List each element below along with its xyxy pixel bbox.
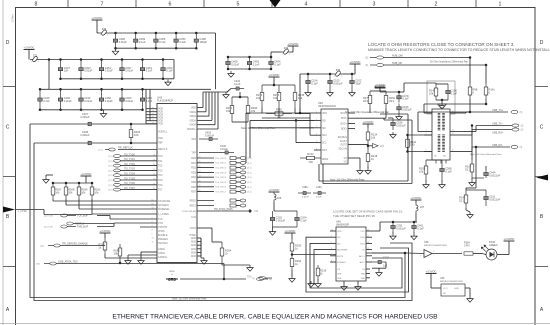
sheet connector arrow right bbox=[536, 175, 548, 181]
svg-text:TD6: TD6 bbox=[158, 184, 163, 187]
power +3.3VDC bbox=[375, 83, 386, 87]
wire RD6 bbox=[197, 186, 214, 188]
wire GND6 stub bbox=[197, 255, 201, 257]
svg-text:10k: 10k bbox=[226, 109, 231, 113]
resistor R404 100 bbox=[129, 124, 141, 143]
power +3.3VDC bbox=[269, 73, 280, 77]
svg-text:TCK: TCK bbox=[158, 218, 163, 221]
svg-text:(2.2): (2.2) bbox=[108, 175, 113, 177]
svg-text:TLK2108IRCP: TLK2108IRCP bbox=[157, 100, 173, 103]
junction midrail 3 bbox=[270, 56, 273, 59]
U46 right pin ACC- bbox=[366, 261, 372, 263]
U46 left pin VDD bbox=[330, 230, 336, 232]
svg-text:MODESEL: MODESEL bbox=[158, 208, 170, 211]
off-page connector bbox=[114, 164, 121, 167]
T2 bottom NC stubs bbox=[436, 160, 446, 164]
off-page connector bbox=[114, 183, 121, 186]
svg-text:VDD: VDD bbox=[191, 107, 196, 110]
svg-text:0.01uF: 0.01uF bbox=[84, 69, 92, 73]
svg-text:10k: 10k bbox=[251, 109, 256, 113]
resistor R268 10k bbox=[64, 183, 75, 199]
T2 left pin 2 bbox=[424, 134, 432, 136]
wire VO out bbox=[348, 157, 360, 159]
top zone tick 7 bbox=[475, 0, 477, 8]
svg-text:VDDA: VDDA bbox=[189, 115, 196, 118]
wire rail A bottom bbox=[116, 47, 197, 49]
junction rail A bottom 3 bbox=[155, 47, 158, 50]
junction R191 bottom bbox=[406, 150, 409, 153]
capacitor C447 1uF bbox=[58, 60, 70, 79]
svg-text:0.1uF: 0.1uF bbox=[234, 83, 241, 86]
svg-text:0.01uF: 0.01uF bbox=[64, 99, 72, 103]
junction rail B bottom 3 bbox=[100, 78, 103, 81]
svg-text:(2.2): (2.2) bbox=[108, 161, 113, 163]
svg-text:10k: 10k bbox=[68, 190, 73, 194]
wire jtrstn stub bbox=[140, 226, 157, 228]
svg-text:21: 21 bbox=[153, 169, 155, 171]
svg-text:VDDA: VDDA bbox=[189, 119, 196, 122]
svg-text:ENABLE: ENABLE bbox=[158, 234, 168, 237]
svg-text:THWn: THWn bbox=[189, 234, 196, 237]
wire bus drop b bbox=[245, 113, 247, 163]
svg-text:8: 8 bbox=[152, 230, 153, 232]
svg-text:VO: VO bbox=[344, 162, 348, 164]
wire VDDA stub right bbox=[197, 115, 209, 117]
U40 right pin BOO- bbox=[348, 117, 355, 119]
svg-text:VDDA: VDDA bbox=[189, 124, 196, 127]
svg-text:0.1uF: 0.1uF bbox=[402, 97, 409, 101]
svg-text:10k: 10k bbox=[273, 96, 278, 100]
resistor series RD5 bbox=[230, 181, 236, 184]
wire R331-R330 top bbox=[232, 96, 248, 98]
svg-text:HUB_DP: HUB_DP bbox=[392, 62, 402, 65]
wire R213 down bbox=[261, 108, 263, 114]
svg-text:7: 7 bbox=[101, 1, 104, 7]
capacitor C106 0.001uF bbox=[397, 104, 412, 114]
resistor R250 1k bbox=[290, 239, 302, 255]
wire boo pair riser b bbox=[411, 120, 413, 184]
svg-text:TD1: TD1 bbox=[158, 160, 163, 163]
resistor R215 10k bbox=[293, 85, 305, 108]
ground C186 bbox=[390, 132, 396, 138]
svg-text:5: 5 bbox=[316, 141, 317, 143]
wire c107 down bbox=[385, 262, 387, 268]
svg-text:FAULT: FAULT bbox=[340, 140, 348, 143]
svg-text:6: 6 bbox=[169, 1, 172, 7]
svg-text:8: 8 bbox=[35, 1, 38, 7]
off-page connector LINE_XPGA_TDO bbox=[44, 262, 56, 265]
svg-text:0.001uF: 0.001uF bbox=[396, 226, 406, 230]
wire test2 bbox=[73, 223, 114, 225]
wire mode bus 1 bbox=[53, 200, 157, 202]
svg-text:TEN: TEN bbox=[191, 138, 196, 141]
junction midrail 2 bbox=[248, 56, 251, 59]
off-page connector RD4 bbox=[240, 176, 246, 179]
svg-text:+3.3VDC: +3.3VDC bbox=[269, 188, 280, 192]
resistor R552 100 bbox=[266, 107, 292, 119]
svg-text:U48: U48 bbox=[424, 241, 429, 244]
wire vcc pin wire bbox=[372, 230, 380, 232]
svg-text:(3.1): (3.1) bbox=[247, 172, 252, 174]
sheet frame top border bbox=[15, 7, 535, 9]
svg-text:(3.1): (3.1) bbox=[247, 163, 252, 165]
resistor R214 10k bbox=[366, 128, 378, 144]
svg-text:TD3: TD3 bbox=[158, 169, 163, 172]
resistor series RD7 bbox=[230, 190, 236, 193]
capacitor C204 0.1uF bbox=[295, 211, 307, 227]
wire RD0 bbox=[197, 157, 214, 159]
svg-text:0.001uF: 0.001uF bbox=[80, 134, 90, 137]
wire rx- jog bbox=[466, 151, 472, 153]
right zone tick bbox=[535, 86, 548, 88]
capacitor C479 0.1uF bbox=[397, 92, 409, 103]
junction rail B bottom 6 bbox=[162, 78, 165, 81]
off-page connector RD3 bbox=[240, 171, 246, 174]
svg-text:SPICEEN: SPICEEN bbox=[158, 204, 169, 207]
wire mid pair b bbox=[323, 183, 412, 185]
svg-text:2 Rev: 2 Rev bbox=[11, 14, 15, 22]
U40 right pin BOO+ bbox=[348, 122, 355, 124]
junction rail A 5 bbox=[195, 32, 198, 35]
wire j0 riser down bbox=[299, 74, 301, 113]
junction rail A 4 bbox=[175, 32, 178, 35]
junction R404 bottom bbox=[130, 142, 133, 145]
svg-text:(2.2): (2.2) bbox=[108, 180, 113, 182]
svg-text:BOO-: BOO- bbox=[341, 129, 347, 131]
wire top mid rail bbox=[228, 56, 271, 58]
wire tdo cont bbox=[120, 263, 224, 265]
wire n rail bbox=[274, 210, 297, 212]
svg-text:SDO: SDO bbox=[360, 243, 365, 245]
svg-text:0.001uF: 0.001uF bbox=[396, 123, 406, 127]
ground C479/C106 bbox=[396, 114, 402, 120]
svg-text:47: 47 bbox=[199, 156, 201, 158]
wire GND4 riser bbox=[200, 238, 202, 249]
wire u49 gnd drop bbox=[469, 288, 471, 296]
wire mode bus 2 bbox=[66, 204, 157, 206]
top zone tick 1 bbox=[67, 0, 69, 8]
capacitor C107 bbox=[372, 260, 386, 263]
wire USB_DP riser bbox=[485, 65, 487, 83]
LED DS16 bbox=[481, 245, 497, 260]
svg-text:SCL: SCL bbox=[322, 143, 327, 145]
wire USB_DM riser bbox=[469, 58, 471, 84]
svg-text:(3.1): (3.1) bbox=[247, 187, 252, 189]
svg-text:3: 3 bbox=[373, 1, 376, 7]
wire bottom tdo b bbox=[224, 278, 246, 280]
capacitor C202 0.001uF bbox=[270, 211, 285, 227]
junction bank2 bottom 4 bbox=[100, 109, 103, 112]
resistor series RD0 bbox=[230, 157, 236, 160]
U40 left pin SDI bbox=[314, 127, 321, 129]
svg-text:GNDPLL: GNDPLL bbox=[158, 256, 168, 259]
svg-text:0.1uF: 0.1uF bbox=[316, 197, 322, 199]
ferrite bead Z33 bbox=[281, 46, 291, 56]
capacitor C465 0.1uF bbox=[154, 33, 166, 48]
svg-text:(2.2): (2.2) bbox=[108, 185, 113, 187]
svg-text:TRI_SERDES_ENABLE: TRI_SERDES_ENABLE bbox=[62, 243, 88, 246]
wire L_OPEN c bbox=[44, 214, 92, 216]
wire term2 feed bbox=[471, 126, 473, 161]
resistor R262 1k bbox=[99, 238, 107, 254]
svg-text:+3.3VDC: +3.3VDC bbox=[269, 73, 280, 77]
wire term top bbox=[426, 159, 442, 161]
svg-text:TESTEN: TESTEN bbox=[158, 242, 168, 245]
svg-text:9: 9 bbox=[152, 234, 153, 236]
ground mode a bbox=[125, 258, 131, 264]
svg-text:REF: REF bbox=[158, 142, 163, 145]
svg-text:0.1uF: 0.1uF bbox=[159, 40, 166, 44]
ground C234 bbox=[223, 92, 229, 98]
ground U49 bbox=[467, 296, 473, 302]
svg-text:(3): (3) bbox=[521, 126, 524, 128]
svg-text:5: 5 bbox=[237, 1, 240, 7]
resistor R98 0 bbox=[468, 83, 478, 99]
svg-text:0.1uF: 0.1uF bbox=[146, 99, 153, 103]
junction bus a bbox=[299, 112, 302, 115]
wire R216 down bbox=[278, 108, 280, 118]
wire u46 gnd a lead bbox=[343, 281, 345, 284]
off-page connector USB_DP bbox=[370, 63, 383, 66]
svg-text:(3): (3) bbox=[365, 65, 368, 67]
sheet outer edge line left bbox=[2, 0, 4, 325]
junction box gnd bbox=[441, 99, 444, 102]
svg-text:JTRSTN: JTRSTN bbox=[158, 226, 167, 229]
svg-text:0.01uF: 0.01uF bbox=[125, 69, 133, 73]
wire u40 riser b bbox=[309, 114, 311, 136]
svg-text:46: 46 bbox=[199, 161, 201, 163]
U46 right pin CC bbox=[366, 249, 372, 251]
wire tdo drop bbox=[223, 264, 225, 280]
wire tck jog bbox=[109, 216, 111, 220]
junction rail B bottom 1 bbox=[59, 78, 62, 81]
wire serdes enable bbox=[60, 245, 105, 247]
svg-text:TCK_BUF: TCK_BUF bbox=[77, 215, 88, 218]
sheet frame right border bbox=[534, 7, 536, 325]
svg-text:TD2_RXC2: TD2_RXC2 bbox=[215, 168, 227, 170]
capacitor C439 4.7uF bbox=[38, 89, 50, 110]
junction rail B 3 bbox=[100, 58, 103, 61]
wire rail B right end bbox=[173, 60, 175, 79]
svg-text:RD4: RD4 bbox=[191, 176, 196, 179]
svg-text:PRESEN: PRESEN bbox=[158, 238, 168, 241]
svg-text:6: 6 bbox=[316, 148, 317, 150]
svg-text:(2.2): (2.2) bbox=[108, 170, 113, 172]
top zone tick 2 bbox=[135, 0, 137, 8]
svg-text:SN74LVC1G04YDCKR: SN74LVC1G04YDCKR bbox=[440, 281, 463, 283]
wire rx+ jog bbox=[466, 134, 472, 136]
off-page connector USB_RX+ bbox=[512, 128, 519, 131]
wire T2 in top bbox=[423, 104, 425, 113]
wire loop net 2 bbox=[34, 143, 412, 301]
wire led in bbox=[482, 254, 486, 255]
junction bank2 6 bbox=[141, 88, 144, 91]
svg-text:(34): (34) bbox=[40, 246, 44, 248]
wire rx- jog v bbox=[471, 147, 473, 152]
transformer T2 shield ground arrow bbox=[438, 100, 447, 109]
wire VDD feed 4 bbox=[146, 117, 157, 119]
junction bus b bbox=[295, 119, 298, 122]
svg-text:0.01uF: 0.01uF bbox=[119, 40, 127, 44]
wire c444 top bbox=[485, 166, 487, 170]
svg-text:GREEN: GREEN bbox=[489, 244, 498, 247]
wire rail A drop to VDD rail bbox=[215, 33, 217, 89]
wire bottom tdo a bbox=[180, 278, 224, 280]
U40 left pin VDD bbox=[314, 112, 321, 114]
sheet fold arrow top bbox=[270, 0, 281, 8]
wire boo b jog bbox=[383, 118, 385, 120]
junction rail B bottom 5 bbox=[141, 78, 144, 81]
capacitor C450 0.01uF bbox=[99, 89, 113, 110]
junction rail B 5 bbox=[141, 58, 144, 61]
ground U43 right bbox=[201, 258, 207, 264]
svg-text:CS: CS bbox=[337, 269, 341, 271]
svg-text:RD2: RD2 bbox=[191, 167, 196, 170]
junction midrail bottom 1 bbox=[227, 68, 230, 71]
resistor series RD4 bbox=[230, 176, 236, 179]
wire z35 in bbox=[343, 73, 355, 75]
power +3.3VDC bbox=[426, 269, 437, 273]
wire GND3 riser bbox=[200, 238, 202, 245]
wire JTDO to R264 bbox=[212, 241, 222, 243]
svg-text:(2.2): (2.2) bbox=[108, 190, 113, 192]
svg-text:0.001uF: 0.001uF bbox=[80, 116, 90, 119]
svg-text:TD6_RXC6: TD6_RXC6 bbox=[215, 187, 227, 189]
svg-text:0.001uF: 0.001uF bbox=[333, 81, 343, 85]
ground C104 bbox=[305, 90, 311, 96]
capacitor C398 0.1uF bbox=[440, 160, 452, 180]
wire 3.3 lead bbox=[273, 77, 275, 85]
wire buffer out bbox=[432, 253, 462, 255]
T2 left pin 3 bbox=[424, 131, 432, 133]
junction R191 top bbox=[406, 134, 409, 137]
svg-text:(2.2): (2.2) bbox=[108, 166, 113, 168]
svg-text:0.1uF: 0.1uF bbox=[146, 69, 153, 73]
resistor R141 0 bbox=[484, 83, 495, 99]
wire c401 gnd lead bbox=[413, 232, 415, 234]
wire 3.3 lead tr bbox=[379, 87, 381, 92]
wire c186 top bbox=[388, 117, 393, 119]
svg-text:(4,27,33): (4,27,33) bbox=[44, 227, 53, 229]
wire CC out bbox=[372, 252, 407, 254]
wire USB_DM to T2 bbox=[418, 111, 470, 113]
svg-text:C: C bbox=[540, 125, 544, 131]
wire GND1 stub bbox=[197, 237, 201, 239]
off-page connector RD5 bbox=[240, 181, 246, 184]
svg-text:C42: C42 bbox=[254, 211, 259, 213]
wire u40 b bbox=[296, 119, 300, 121]
ground rail B bbox=[165, 80, 171, 86]
svg-text:TD5_RXC5: TD5_RXC5 bbox=[215, 182, 227, 184]
capacitor C401 0.1uF bbox=[412, 222, 424, 232]
svg-text:GND: GND bbox=[191, 242, 196, 244]
wire r377 rail bbox=[370, 90, 386, 92]
ferrite bead Z27 vertical bbox=[416, 203, 425, 213]
top zone tick 6 bbox=[407, 0, 409, 8]
svg-text:EX1: EX1 bbox=[380, 146, 385, 148]
T2 left pin 5 bbox=[424, 151, 432, 153]
junction L 2 bbox=[65, 182, 68, 185]
svg-text:10: 10 bbox=[367, 242, 369, 244]
svg-text:RD1: RD1 bbox=[191, 162, 196, 165]
wire VDDA top rail bbox=[203, 91, 228, 93]
wire z33 right bbox=[291, 51, 293, 53]
wire mid pair a drop bbox=[318, 164, 320, 181]
wire RD3 bbox=[197, 171, 214, 173]
wire r250 to U46 bbox=[292, 254, 336, 256]
wire VDDA stub right bbox=[197, 111, 206, 113]
wire r262 down bbox=[104, 254, 106, 258]
junction rail B 4 bbox=[121, 58, 124, 61]
svg-text:RD5: RD5 bbox=[191, 181, 196, 184]
wire 3.3 j0 lead bbox=[354, 64, 356, 74]
capacitor C103 0.001uF bbox=[328, 74, 343, 90]
junction r263 bbox=[119, 262, 122, 265]
wire c202 gnd lead bbox=[272, 227, 274, 229]
wire mid rail bottom bbox=[228, 68, 271, 70]
off-page connector bbox=[114, 155, 121, 158]
svg-text:Note: 100 Ohm Differential Pai: Note: 100 Ohm Differential Pairs bbox=[172, 298, 207, 301]
svg-text:(3.1): (3.1) bbox=[247, 158, 252, 160]
buffer U48 triangle bbox=[424, 250, 432, 258]
arrow EX1 bbox=[373, 144, 379, 149]
sheet bottom faint edge bbox=[0, 323, 550, 325]
svg-text:BOO+: BOO+ bbox=[341, 123, 348, 125]
svg-text:D: D bbox=[540, 40, 544, 46]
junction bank2 bottom 5 bbox=[121, 109, 124, 112]
svg-text:ACC-: ACC- bbox=[360, 261, 366, 264]
wire +3.6V rail A bbox=[109, 32, 216, 34]
wire VDD feed 6 bbox=[146, 123, 157, 125]
IC U43 TLK2208RCP body bbox=[157, 104, 197, 263]
wire r141 bottom bbox=[485, 99, 487, 104]
svg-text:GND: GND bbox=[191, 252, 196, 254]
transformer T2 winding pair 2 bbox=[439, 135, 444, 153]
svg-text:53.2: 53.2 bbox=[459, 198, 465, 202]
svg-text:0.01uF: 0.01uF bbox=[105, 99, 113, 103]
wire VDD feed 1 bbox=[146, 108, 157, 110]
U40 left pin SDI bbox=[314, 119, 321, 121]
svg-text:0.01uF: 0.01uF bbox=[231, 62, 239, 66]
wire RD1 bbox=[197, 162, 214, 164]
wire sync bbox=[197, 210, 248, 212]
ground C391 bbox=[390, 234, 396, 240]
power +3.6VDC bbox=[288, 42, 299, 46]
wire RBC0 bbox=[197, 200, 214, 202]
svg-text:0.1uF: 0.1uF bbox=[451, 91, 458, 95]
transformer T2 body bbox=[432, 109, 450, 160]
right zone tick bbox=[535, 266, 548, 268]
power +3.3VDC bbox=[100, 229, 111, 233]
junction DP riser bbox=[485, 64, 488, 67]
wire USB_TX+ bbox=[466, 111, 508, 113]
ground R219 bbox=[315, 281, 321, 287]
svg-text:(4,27,33): (4,27,33) bbox=[44, 216, 53, 218]
svg-text:+3.3VDC: +3.3VDC bbox=[363, 120, 374, 124]
wire vcc rail u46 bbox=[380, 221, 417, 223]
svg-text:SDA: SDA bbox=[322, 134, 327, 137]
off-page connector RD2 bbox=[240, 166, 246, 169]
wire RD5 bbox=[197, 181, 214, 183]
svg-text:TD1_RXC1: TD1_RXC1 bbox=[215, 163, 227, 165]
svg-text:LMH0341SP: LMH0341SP bbox=[336, 225, 349, 227]
ground R142/C108 bbox=[439, 103, 445, 109]
svg-text:BOO-: BOO- bbox=[341, 118, 347, 120]
wire r162 gnd lead bbox=[471, 178, 473, 180]
wire r219 gnd lead bbox=[317, 279, 319, 281]
wire r214 down bbox=[367, 144, 369, 149]
off-page connector TMS_BUF bbox=[61, 225, 76, 228]
